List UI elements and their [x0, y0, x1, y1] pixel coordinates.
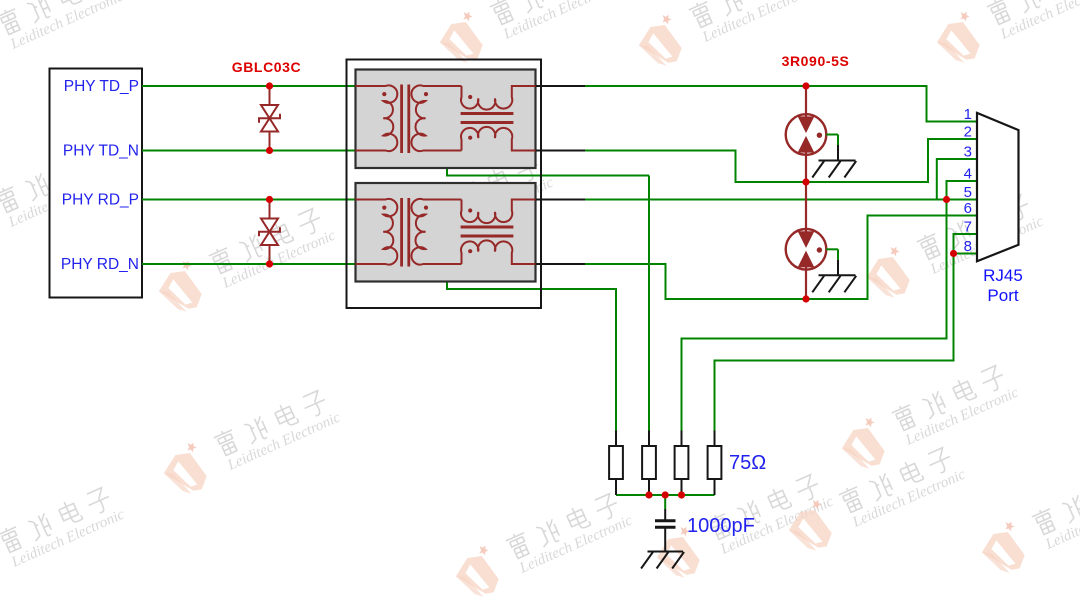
choke bottom winding — [461, 127, 535, 151]
svg-text:Port: Port — [987, 286, 1018, 305]
choke top winding — [461, 86, 535, 110]
resistor R2 75ohm — [648, 431, 650, 447]
svg-text:PHY RD_N: PHY RD_N — [61, 256, 139, 273]
wire TD_P from PHY to transformer T1 — [142, 85, 356, 87]
svg-text:5: 5 — [964, 184, 972, 201]
choke bottom dot — [468, 249, 472, 253]
TVS zener bar — [259, 227, 280, 236]
wire T1 centre tap to resistor R2 — [426, 118, 648, 175]
choke bottom dot — [468, 136, 472, 140]
svg-text:3R090-5S: 3R090-5S — [782, 53, 850, 69]
wire bus to capacitor — [664, 495, 666, 509]
PHY block — [50, 69, 143, 298]
junction — [266, 147, 273, 154]
transformer module outer box — [347, 60, 542, 309]
secondary polarity dot — [424, 206, 428, 210]
transformer pin stub — [536, 85, 586, 87]
svg-text:75Ω: 75Ω — [729, 452, 766, 474]
choke bottom winding — [461, 240, 535, 264]
resistor R4 75ohm — [714, 431, 716, 447]
TVS vertical leads — [269, 200, 271, 219]
junction — [266, 196, 273, 203]
svg-text:RJ45: RJ45 — [983, 266, 1023, 285]
wire GDT2 bottom to RJ45 pin 6 — [806, 216, 977, 300]
svg-text:4: 4 — [964, 166, 972, 183]
junction — [662, 491, 669, 498]
GDT circle — [786, 229, 827, 270]
TVS bottom triangle — [261, 232, 278, 245]
TVS zener bar — [259, 114, 280, 123]
svg-text:8: 8 — [964, 238, 972, 255]
wire resistor bottom bus — [616, 494, 715, 496]
GDT circle — [786, 114, 827, 155]
junction — [943, 196, 950, 203]
GDT top triangle (filled) — [799, 117, 814, 132]
GDT bottom triangle (filled) — [799, 137, 814, 152]
svg-text:6: 6 — [964, 200, 972, 217]
capacitor C1 1000pF — [664, 509, 666, 520]
RJ45 connector body — [977, 113, 1019, 261]
choke top dot — [468, 95, 472, 99]
transformer pin stub — [536, 263, 586, 265]
wire pin8 junction to RJ45 pin 8 — [954, 253, 978, 255]
GDT ground stub — [826, 248, 838, 250]
wire RJ45 pin 4 to junction and down to resistor R3 — [682, 181, 978, 431]
primary polarity dot — [382, 206, 386, 210]
svg-text:GBLC03C: GBLC03C — [232, 59, 302, 75]
resistor R3 75ohm — [681, 431, 683, 447]
GDT lead between G1 and middle junction — [805, 152, 807, 182]
svg-text:1: 1 — [964, 106, 972, 123]
choke top dot — [468, 208, 472, 212]
junction — [950, 250, 957, 257]
svg-text:PHY TD_N: PHY TD_N — [63, 143, 139, 160]
wire TD_N from PHY to transformer T1 — [142, 150, 356, 152]
transformer body (gray) — [356, 183, 536, 282]
wire pin8 junction down to resistor R4 — [715, 254, 954, 431]
choke top winding — [461, 200, 535, 224]
junction — [802, 178, 809, 185]
wire RD_N output to GDT2 bottom — [585, 264, 806, 299]
svg-text:3: 3 — [964, 144, 972, 161]
junction — [802, 82, 809, 89]
GDT vertical lead upper — [805, 86, 807, 117]
wire GDT middle junction to RJ45 pin 2 — [806, 139, 977, 182]
choke core — [461, 225, 514, 228]
svg-text:7: 7 — [964, 219, 972, 236]
TVS bottom triangle — [261, 118, 278, 131]
GDT lead G2 to bottom junction — [805, 267, 807, 299]
wire RD_N from PHY to transformer T2 — [142, 263, 356, 265]
chassis ground — [819, 274, 856, 276]
wire RD_P output to pin5 junction — [585, 199, 947, 201]
transformer pin stub — [536, 199, 586, 201]
GDT top triangle (filled) — [799, 232, 814, 247]
svg-text:2: 2 — [964, 124, 972, 141]
transformer pin stub — [536, 150, 586, 152]
primary winding — [356, 85, 398, 151]
choke core — [461, 112, 514, 115]
junction — [802, 295, 809, 302]
chassis ground — [819, 160, 856, 162]
resistor R1 75ohm — [615, 431, 617, 447]
wire TD_P output to RJ45 pin 1 — [585, 86, 977, 122]
GDT electrode dot — [817, 133, 822, 138]
junction — [645, 491, 652, 498]
transformer body (gray) — [356, 70, 536, 169]
wire T2 centre tap to resistor R1 — [426, 232, 617, 431]
TVS vertical leads — [269, 86, 271, 105]
secondary winding — [411, 199, 461, 265]
svg-text:PHY RD_P: PHY RD_P — [62, 192, 139, 209]
svg-text:1000pF: 1000pF — [687, 515, 755, 537]
transformer core — [400, 198, 403, 267]
junction — [266, 82, 273, 89]
primary polarity dot — [382, 92, 386, 96]
GDT ground stub — [826, 134, 838, 136]
secondary polarity dot — [424, 92, 428, 96]
TVS top triangle — [261, 105, 278, 118]
wire pin5 junction to RJ45 pin 5 — [947, 199, 978, 201]
primary winding — [356, 199, 398, 265]
TVS top triangle — [261, 219, 278, 232]
svg-text:PHY TD_P: PHY TD_P — [64, 78, 139, 95]
junction — [266, 260, 273, 267]
wire RJ45 pin 3 drop — [937, 159, 977, 200]
GDT bottom triangle (filled) — [799, 252, 814, 267]
transformer core — [400, 85, 403, 154]
GDT electrode dot — [817, 247, 822, 252]
wire TD_N output to GDT middle junction — [585, 151, 806, 183]
secondary winding — [411, 85, 461, 151]
junction — [678, 491, 685, 498]
wire RJ45 pin 7 to pin8 junction — [954, 234, 978, 254]
GDT lead middle junction to G2 — [805, 182, 807, 232]
chassis ground for capacitor — [648, 551, 684, 553]
wire RD_P from PHY to transformer T2 — [142, 199, 356, 201]
